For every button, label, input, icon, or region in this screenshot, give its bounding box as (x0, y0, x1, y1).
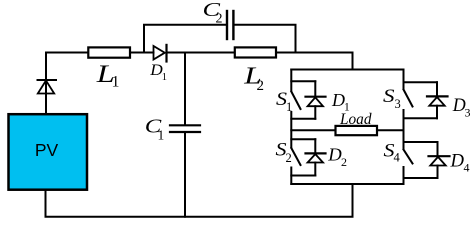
svg-text:S: S (383, 86, 395, 107)
svg-text:2: 2 (216, 11, 223, 26)
svg-text:2: 2 (286, 151, 292, 165)
svg-text:2: 2 (341, 155, 347, 169)
svg-text:D: D (327, 144, 342, 164)
svg-text:D: D (450, 150, 465, 171)
svg-text:4: 4 (464, 161, 470, 175)
svg-text:2: 2 (257, 78, 265, 94)
svg-text:1: 1 (158, 128, 165, 143)
svg-text:1: 1 (286, 100, 292, 114)
svg-text:3: 3 (465, 105, 471, 119)
svg-text:1: 1 (112, 74, 120, 91)
svg-text:Load: Load (339, 111, 372, 128)
svg-text:1: 1 (162, 72, 167, 83)
svg-text:3: 3 (395, 97, 401, 111)
svg-text:PV: PV (35, 140, 59, 160)
svg-text:4: 4 (394, 151, 401, 165)
